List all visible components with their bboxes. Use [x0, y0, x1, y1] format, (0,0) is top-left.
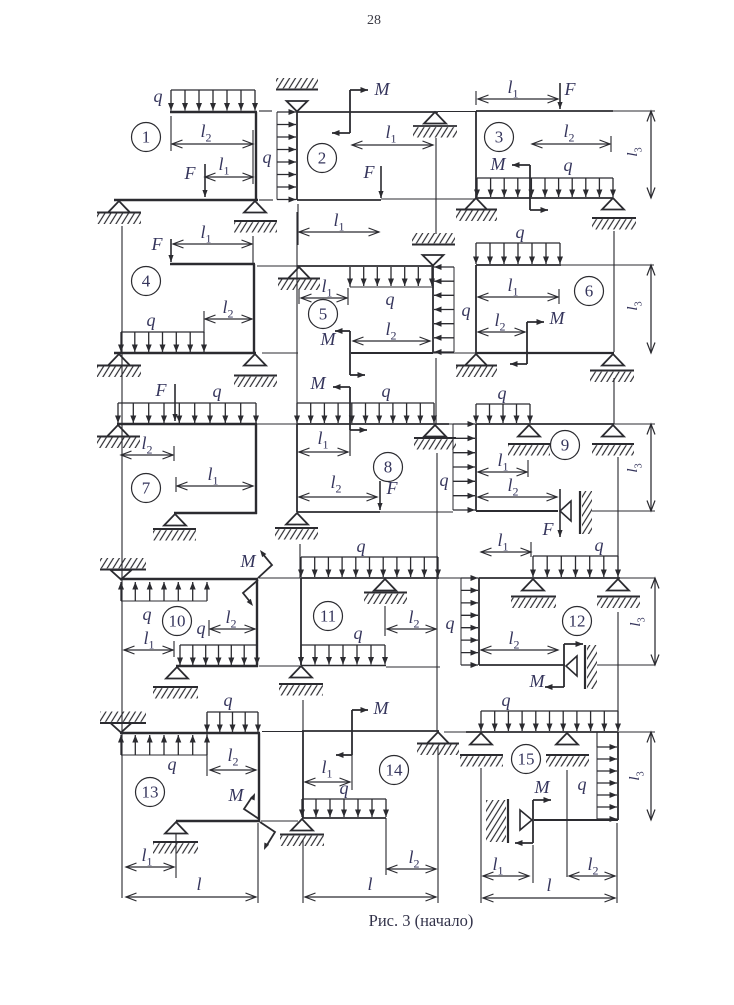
- svg-text:M: M: [228, 785, 245, 805]
- load q on frame 11 top beam: [301, 556, 438, 558]
- svg-text:M: M: [534, 777, 551, 797]
- dimension l2 diagram 14: [387, 868, 436, 870]
- pin support diagram 12 mid: [522, 579, 544, 591]
- svg-text:2: 2: [318, 149, 327, 168]
- frame 14 bottom beam: [302, 817, 386, 819]
- frame 15 top beam: [466, 731, 618, 733]
- dimension l1 diagram 6: [478, 296, 558, 298]
- dimension l2 diagram 4: [205, 318, 252, 320]
- frame 8 left column: [296, 424, 298, 512]
- extension ticks diagram 10: [208, 620, 210, 636]
- circled number 14: [380, 756, 409, 785]
- frame 12 bottom beam: [479, 664, 565, 666]
- svg-text:q: q: [502, 690, 511, 710]
- frame 1 top beam: [170, 111, 257, 113]
- pin support diagram 8 bottom: [286, 513, 308, 525]
- svg-text:q: q: [498, 383, 507, 403]
- svg-text:l: l: [546, 875, 551, 895]
- dimension l1 diagram 9: [478, 471, 527, 473]
- frame 4 top beam: [170, 263, 255, 265]
- pin support diagram 4 left: [108, 354, 130, 366]
- dimension l overall diagram 13: [126, 896, 256, 898]
- load q on frame 14 bottom beam: [302, 798, 386, 800]
- svg-text:F: F: [564, 79, 577, 99]
- row reference line y=578 segments: [259, 577, 301, 579]
- roller support diagram 3 right: [602, 198, 624, 210]
- load q on frame 12 left column: [460, 578, 462, 665]
- roller support diagram 15 left: [470, 733, 492, 745]
- circled number 9: [551, 431, 580, 460]
- frame 14 top beam: [302, 730, 439, 732]
- guided support diagram 12 right: [566, 656, 577, 676]
- frame 6 top beam: [476, 264, 561, 266]
- frame 9 left column: [475, 424, 477, 511]
- svg-text:1: 1: [142, 128, 151, 147]
- dimension l1 diagram 14: [305, 781, 350, 783]
- moment M diagram 15: [532, 800, 534, 843]
- load q on frame 13 top beam right: [207, 711, 258, 713]
- long extension line column 2 lower: [302, 700, 304, 731]
- frame 4 right column: [253, 264, 255, 354]
- svg-text:M: M: [240, 551, 257, 571]
- circled number 6: [575, 277, 604, 306]
- svg-text:Рис. 3 (начало): Рис. 3 (начало): [369, 911, 474, 930]
- load q on frame 1 top beam: [171, 89, 255, 91]
- frame 1 right column: [255, 112, 257, 201]
- svg-text:q: q: [357, 536, 366, 556]
- long extension line column 2 mid: [299, 544, 301, 578]
- svg-text:q: q: [263, 147, 272, 167]
- svg-text:l: l: [367, 874, 372, 894]
- circled number 3: [485, 123, 514, 152]
- roller support diagram 9 right: [602, 425, 624, 437]
- svg-text:q: q: [224, 690, 233, 710]
- dimension l1 diagram 5: [301, 297, 347, 299]
- svg-text:7: 7: [142, 479, 151, 498]
- frame 11 top beam: [301, 577, 439, 579]
- svg-text:5: 5: [319, 305, 328, 324]
- pin support diagram 14 bottom: [291, 819, 313, 831]
- pin support diagram 3 left: [465, 198, 487, 210]
- frame 8 top beam: [297, 423, 449, 425]
- frame 13 bottom beam: [176, 820, 260, 822]
- load q on frame 9 top beam: [476, 403, 530, 405]
- guided support diagram 9 right: [560, 501, 571, 521]
- ceiling pin support diagram 10: [100, 558, 146, 568]
- circled number 12: [563, 607, 592, 636]
- long extension line column 3 segments: [435, 138, 437, 234]
- extension lines diagram 1: [170, 116, 172, 151]
- extension line diagram 2 lower dim: [297, 204, 299, 245]
- extension tick diagram 11: [384, 606, 386, 636]
- load q on frame 9 left column: [452, 424, 454, 510]
- svg-text:12: 12: [569, 612, 586, 631]
- force F diagram 7: [174, 384, 176, 421]
- load q under frame 5 top beam: [349, 267, 351, 286]
- dimension l2 diagram 13: [210, 769, 256, 771]
- extension lines diagram 15: [480, 768, 482, 903]
- svg-text:M: M: [529, 671, 546, 691]
- svg-text:13: 13: [142, 783, 159, 802]
- dimension l1 diagram 3: [478, 98, 558, 100]
- dimension l2 diagram 7: [121, 454, 173, 456]
- roller support diagram 8 right: [424, 425, 446, 437]
- svg-text:F: F: [151, 234, 164, 254]
- load q on frame 4 bottom beam: [121, 331, 204, 333]
- svg-text:q: q: [446, 613, 455, 633]
- load q on frame 2 left column: [276, 112, 278, 200]
- load q under frame 13 top beam (upward): [121, 754, 207, 756]
- svg-text:F: F: [542, 519, 555, 539]
- ceiling pin support diagram 13: [100, 712, 146, 722]
- dimension l3 diagram 6: [650, 265, 652, 353]
- pin support diagram 14 right: [427, 732, 449, 744]
- extension ticks diagram 5: [298, 290, 300, 304]
- row reference line y=666: [259, 665, 300, 667]
- dimension l2 diagram 5: [353, 340, 430, 342]
- circled number 8: [374, 453, 403, 482]
- svg-text:14: 14: [386, 761, 404, 780]
- svg-text:q: q: [213, 381, 222, 401]
- force F diagram 3: [559, 83, 561, 109]
- row reference line y=731: [262, 731, 302, 733]
- circled number 7: [132, 474, 161, 503]
- svg-text:8: 8: [384, 458, 393, 477]
- svg-text:q: q: [595, 535, 604, 555]
- frame 2 top beam: [297, 111, 438, 113]
- row reference line y=199: [381, 198, 476, 200]
- roller support diagram 13 bottom: [165, 822, 187, 834]
- moment M diagram 14: [351, 710, 353, 755]
- svg-text:q: q: [564, 155, 573, 175]
- roller support diagram 12 right: [607, 579, 629, 591]
- frame 15 right column: [617, 732, 619, 820]
- dimension l2 diagram 8: [299, 496, 377, 498]
- frame 5 top beam: [297, 265, 434, 267]
- roller support diagram 1 right: [244, 201, 266, 213]
- frame 3 bottom beam: [476, 197, 613, 199]
- frame 1 bottom beam: [114, 199, 258, 201]
- roller support diagram 15 mid: [556, 733, 578, 745]
- frame 6 bottom beam: [476, 352, 614, 354]
- load q on frame 3 bottom beam: [477, 177, 613, 179]
- load q on frame 6 top beam: [476, 242, 560, 244]
- connector dash right of frame 1 bottom: [259, 199, 273, 201]
- frame 11 bottom beam: [301, 665, 386, 667]
- dimension l1 top diagram 2: [352, 144, 433, 146]
- dimension l1 diagram 12: [481, 551, 531, 553]
- load q on frame 15 top beam: [481, 710, 618, 712]
- force F diagram 4: [170, 239, 172, 262]
- svg-text:q: q: [578, 774, 587, 794]
- dimension l2 diagram 6: [478, 331, 525, 333]
- dimension l1 diagram 8: [299, 451, 348, 453]
- circled number 4: [132, 267, 161, 296]
- dimension l3 diagram 12: [654, 578, 656, 665]
- roller support diagram 9 mid: [518, 425, 540, 437]
- pin support diagram 6 left: [465, 354, 487, 366]
- dimension l1 diagram 15: [483, 875, 529, 877]
- long extension line column 1: [121, 226, 123, 898]
- moment M diagram 3: [529, 165, 531, 210]
- svg-text:F: F: [386, 478, 399, 498]
- dimension l2 diagram 1: [172, 143, 253, 145]
- dimension l1 diagram 4: [173, 243, 252, 245]
- moment M diagram 8: [349, 387, 351, 430]
- ceiling roller support diagram 5: [412, 233, 455, 243]
- dimension l2 diagram 11: [387, 628, 436, 630]
- svg-text:3: 3: [495, 128, 504, 147]
- connector dash right of frame 1 top: [259, 110, 272, 112]
- svg-text:q: q: [382, 381, 391, 401]
- svg-text:F: F: [184, 163, 197, 183]
- svg-text:11: 11: [320, 607, 336, 626]
- row reference line y=821: [261, 820, 298, 822]
- dimension l3 diagram 15: [650, 732, 652, 820]
- svg-text:q: q: [143, 604, 152, 624]
- row reference line y=353 segments: [262, 352, 298, 354]
- dimension l1 diagram 1: [205, 176, 253, 178]
- load q on frame 5 right column: [453, 267, 455, 352]
- extension ticks diagram 7: [173, 446, 175, 461]
- svg-text:q: q: [340, 778, 349, 798]
- circled number 1: [132, 123, 161, 152]
- circled number 15: [512, 745, 541, 774]
- frame 2 bottom beam: [297, 199, 381, 201]
- svg-text:M: M: [374, 79, 391, 99]
- svg-text:q: q: [386, 289, 395, 309]
- frame 9 top beam: [476, 423, 614, 425]
- moment M diagram 6: [526, 322, 528, 364]
- circled number 13: [136, 778, 165, 807]
- svg-text:F: F: [363, 162, 376, 182]
- svg-text:M: M: [490, 154, 507, 174]
- frame 12 left column: [478, 578, 480, 665]
- svg-text:15: 15: [518, 750, 535, 769]
- circled number 5: [309, 300, 338, 329]
- frame 4 bottom beam: [114, 352, 256, 354]
- guided support diagram 15 left: [520, 810, 532, 830]
- svg-text:q: q: [516, 222, 525, 242]
- svg-text:10: 10: [169, 612, 186, 631]
- load q on frame 7 top beam: [118, 402, 256, 404]
- ceiling roller support diagram 2: [276, 78, 318, 88]
- load q on frame 10 bottom beam: [180, 644, 257, 646]
- force F diagram 2: [380, 166, 382, 198]
- pin support diagram 1 left: [108, 201, 130, 213]
- pin support diagram 11 bottom: [290, 666, 312, 678]
- frame 13 right column: [258, 733, 260, 821]
- load q under frame 10 top beam (upward): [121, 600, 207, 602]
- svg-text:q: q: [154, 86, 163, 106]
- frame 12 top beam: [479, 577, 620, 579]
- extension line diagram 3 top: [475, 91, 477, 105]
- frame 10 top beam: [120, 578, 258, 580]
- frame 7 right column: [255, 424, 257, 514]
- svg-text:28: 28: [367, 13, 381, 28]
- svg-text:6: 6: [585, 282, 594, 301]
- svg-text:M: M: [549, 308, 566, 328]
- frame 5 bottom beam: [351, 352, 433, 354]
- dimension l2 diagram 9: [478, 496, 557, 498]
- frame 8 bottom beam: [297, 511, 380, 513]
- dimension l3 diagram 3: [650, 111, 652, 198]
- roller support diagram 6 right: [602, 354, 624, 366]
- force F diagram 8: [379, 481, 381, 510]
- circled number 10: [163, 607, 192, 636]
- dimension l1 diagram 7: [177, 485, 253, 487]
- svg-text:q: q: [440, 470, 449, 490]
- svg-text:q: q: [354, 623, 363, 643]
- dimension l overall diagram 15: [483, 897, 615, 899]
- frame 9 bottom beam: [476, 510, 558, 512]
- row reference line y=266: [257, 265, 297, 267]
- frame 15 bottom beam: [534, 819, 618, 821]
- row reference line y=424: [257, 423, 297, 425]
- moment M diagram 5: [349, 331, 351, 375]
- load q on frame 15 right column: [596, 747, 598, 819]
- pin support diagram 5 left: [288, 267, 310, 279]
- frame 3 left column: [475, 111, 477, 198]
- moment M diagram 10 corner: [258, 553, 272, 578]
- frame 7 top beam: [117, 423, 257, 425]
- frame 3 top beam: [476, 110, 613, 112]
- frame 7 bottom beam: [174, 512, 257, 514]
- moment M diagram 13 corner: [244, 797, 259, 819]
- dimension l2 diagram 3: [532, 143, 610, 145]
- frame 14 left column: [302, 731, 304, 818]
- frame 5 right column: [432, 266, 434, 353]
- frame 2 left column: [296, 112, 298, 200]
- extension tick diagram 6: [558, 289, 560, 304]
- moment M diagram 12: [563, 644, 565, 687]
- svg-text:q: q: [462, 300, 471, 320]
- frame 13 top beam: [120, 732, 260, 734]
- svg-text:q: q: [197, 618, 206, 638]
- force F diagram 9: [559, 489, 561, 537]
- load q on frame 12 top beam: [533, 555, 618, 557]
- frame 10 bottom beam: [176, 665, 258, 667]
- roller support diagram 4 right: [244, 354, 266, 366]
- dimension l2 diagram 12: [481, 649, 558, 651]
- circled number 11: [314, 602, 343, 631]
- extension tick diagram 9: [527, 460, 529, 477]
- svg-text:q: q: [147, 310, 156, 330]
- dimension l2 diagram 10: [210, 628, 255, 630]
- dimension l1 bottom diagram 2: [299, 231, 379, 233]
- svg-text:9: 9: [561, 436, 570, 455]
- frame 10 right column: [256, 579, 258, 667]
- force F diagram 1: [204, 164, 206, 197]
- dimension l1 diagram 13: [126, 866, 174, 868]
- svg-text:M: M: [320, 329, 337, 349]
- roller support diagram 7 bottom: [164, 514, 186, 526]
- long extension line column 4 segments: [613, 231, 615, 352]
- svg-text:F: F: [155, 380, 168, 400]
- long extension line column 2 upper: [296, 212, 298, 424]
- moment M diagram 2: [349, 90, 351, 133]
- frame 11 left column: [300, 578, 302, 665]
- svg-text:M: M: [310, 373, 327, 393]
- roller support diagram 10 bottom: [166, 667, 188, 679]
- load q on frame 8 top beam: [297, 402, 434, 404]
- dimension l2 diagram 15: [569, 875, 615, 877]
- frame 6 left column: [475, 265, 477, 353]
- load q on frame 11 bottom beam: [301, 644, 385, 646]
- roller support diagram 11 mid: [374, 579, 396, 591]
- dimension l overall diagram 14: [305, 896, 436, 898]
- dimension l3 diagram 9: [650, 424, 652, 511]
- roller support diagram 2 right: [424, 112, 446, 124]
- dimension l1 diagram 10: [124, 649, 173, 651]
- svg-text:l: l: [196, 874, 201, 894]
- pin support diagram 7 left: [107, 425, 129, 437]
- svg-text:q: q: [168, 754, 177, 774]
- svg-text:4: 4: [142, 272, 151, 291]
- svg-text:M: M: [373, 698, 390, 718]
- circled number 2: [308, 144, 337, 173]
